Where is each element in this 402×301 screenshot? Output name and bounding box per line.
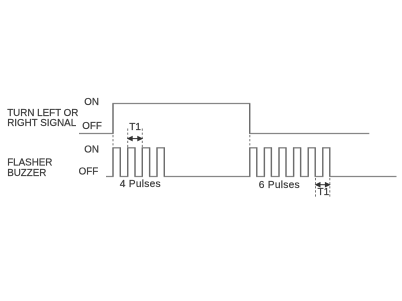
svg-text:BUZZER: BUZZER [7, 168, 46, 179]
svg-text:4 Pulses: 4 Pulses [120, 179, 161, 190]
svg-text:ON: ON [84, 97, 99, 108]
svg-text:T1: T1 [318, 187, 330, 198]
svg-text:OFF: OFF [79, 167, 99, 178]
svg-text:RIGHT SIGNAL: RIGHT SIGNAL [7, 118, 77, 129]
svg-text:T1: T1 [129, 122, 141, 133]
svg-text:OFF: OFF [82, 121, 102, 132]
svg-text:6 Pulses: 6 Pulses [259, 180, 300, 191]
svg-text:ON: ON [84, 145, 99, 156]
